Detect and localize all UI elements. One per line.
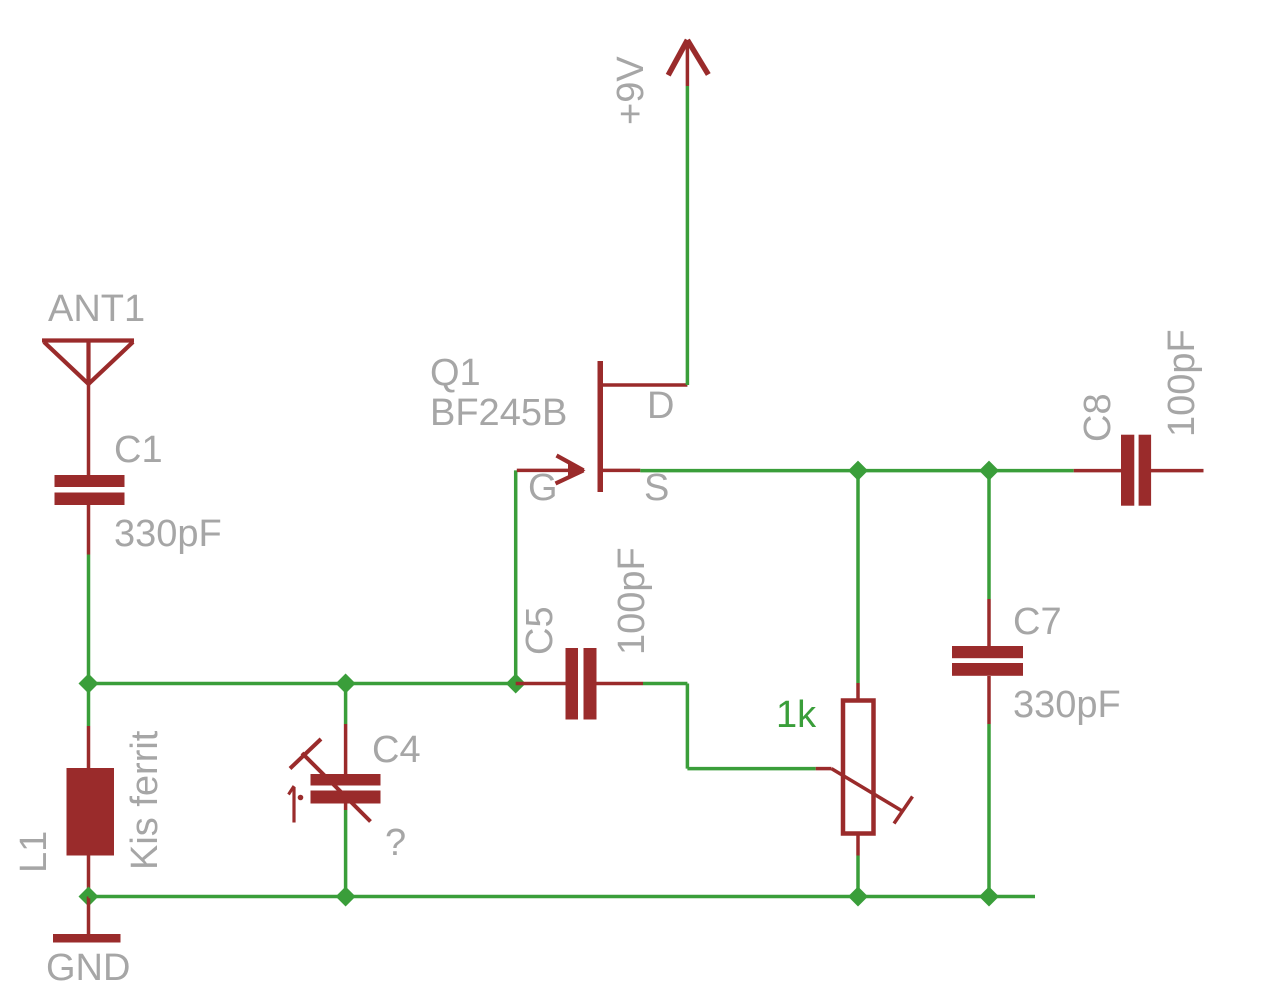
wire C7 to ground bus xyxy=(987,724,991,897)
junction node gate xyxy=(506,674,526,694)
svg-text:L1: L1 xyxy=(13,831,55,873)
wire ground bus xyxy=(89,895,1036,899)
capacitor C5 xyxy=(516,648,643,720)
svg-text:ANT1: ANT1 xyxy=(48,288,145,330)
wire C1 to node A xyxy=(87,555,91,684)
transistor Q1 xyxy=(517,361,688,492)
svg-text:330pF: 330pF xyxy=(114,513,222,555)
svg-text:Kis ferrit: Kis ferrit xyxy=(124,730,166,870)
capacitor C1 xyxy=(55,475,125,505)
wire source to pot xyxy=(856,471,860,683)
svg-text:C1: C1 xyxy=(114,429,163,471)
junction node pot-bottom xyxy=(848,887,868,907)
svg-text:Q1: Q1 xyxy=(430,352,481,394)
svg-text:100pF: 100pF xyxy=(1161,329,1203,437)
ground xyxy=(53,934,121,943)
wire drain to supply xyxy=(686,86,690,385)
svg-text:?: ? xyxy=(385,822,406,864)
svg-text:G: G xyxy=(528,467,558,509)
junction node A xyxy=(79,674,99,694)
junction node C7-top xyxy=(979,461,999,481)
potentiometer 1k xyxy=(816,683,913,856)
wire source to C7 xyxy=(987,471,991,599)
wire gate vertical xyxy=(514,470,518,683)
wire tank net horizontal xyxy=(89,682,516,686)
wire C4 to ground bus xyxy=(344,810,348,897)
svg-text:C7: C7 xyxy=(1013,601,1062,643)
svg-text:S: S xyxy=(644,467,669,509)
svg-text:C8: C8 xyxy=(1077,393,1119,442)
capacitor C4 (trimmer) xyxy=(289,724,381,823)
wire antenna to C1 xyxy=(87,384,91,475)
svg-text:100pF: 100pF xyxy=(611,547,653,655)
svg-text:C4: C4 xyxy=(372,729,421,771)
svg-text:330pF: 330pF xyxy=(1013,684,1121,726)
svg-text:1k: 1k xyxy=(776,694,817,736)
wire pot to ground bus xyxy=(856,856,860,897)
junction node C4-top xyxy=(336,674,356,694)
wire node A to L1 xyxy=(87,684,91,727)
pin C1 bottom xyxy=(87,505,91,555)
svg-text:+9V: +9V xyxy=(610,56,652,125)
junction node pot-top xyxy=(848,461,868,481)
wire C5 to wiper xyxy=(643,684,816,769)
wire node to C4 xyxy=(344,684,348,725)
svg-text:GND: GND xyxy=(46,947,130,989)
antenna ANT1 xyxy=(42,340,134,384)
svg-text:C5: C5 xyxy=(519,606,561,655)
wire source net xyxy=(640,469,1073,473)
capacitor C8 xyxy=(1074,435,1204,506)
wire stub to ground xyxy=(87,897,91,935)
svg-text:D: D xyxy=(647,385,674,427)
svg-text:BF245B: BF245B xyxy=(430,392,567,434)
junction node C4-bottom xyxy=(336,887,356,907)
supply +9V xyxy=(668,40,708,86)
capacitor C7 xyxy=(952,599,1023,724)
junction node C7-bottom xyxy=(979,887,999,907)
junction node GND-left xyxy=(79,887,99,907)
inductor L1 xyxy=(67,726,115,897)
